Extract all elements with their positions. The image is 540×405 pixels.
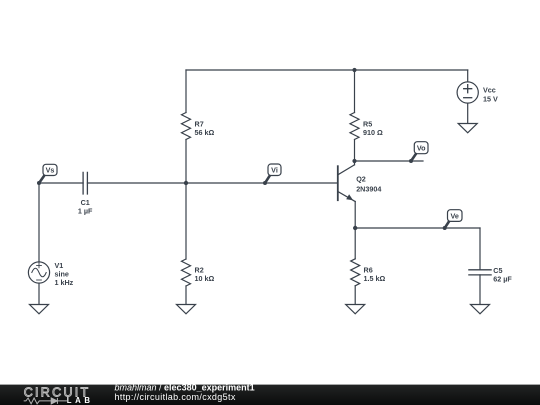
svg-text:Vs: Vs: [46, 166, 55, 175]
node flag Vi: [263, 164, 281, 185]
svg-text:Ve: Ve: [450, 212, 458, 221]
svg-text:56 kΩ: 56 kΩ: [195, 128, 215, 137]
node flag Vo: [409, 142, 428, 163]
wire R7 to input node: [185, 140, 187, 184]
node junction input: [184, 181, 188, 185]
logo CircuitLab: [24, 386, 94, 405]
svg-text:15 V: 15 V: [483, 95, 498, 104]
wire R2 branch upper: [185, 183, 187, 259]
wire top rail to Vcc: [467, 70, 469, 82]
node junction emitter: [353, 226, 357, 230]
ground (R6): [346, 305, 365, 314]
resistor R7: [182, 113, 191, 140]
resistor R5: [350, 113, 359, 140]
svg-text:62 µF: 62 µF: [493, 274, 512, 283]
resistor R6: [351, 259, 360, 286]
svg-text:Vcc: Vcc: [483, 85, 496, 94]
wire R7 branch upper: [185, 70, 187, 113]
transistor Q2: [338, 165, 355, 202]
wire V1 branch: [38, 183, 40, 262]
capacitor C1: [83, 172, 87, 194]
svg-text:10 kΩ: 10 kΩ: [195, 274, 215, 283]
svg-text:bmahlman / elec380_experiment1: bmahlman / elec380_experiment1: [115, 382, 255, 392]
resistor R2: [182, 259, 191, 286]
source V1: [28, 262, 49, 283]
wire Vcc to ground: [467, 103, 469, 123]
node junction collector: [352, 159, 356, 163]
wire C5 branch upper: [479, 228, 481, 270]
svg-text:http://circuitlab.com/cxdg5tx: http://circuitlab.com/cxdg5tx: [115, 392, 236, 402]
ground (Vcc): [458, 124, 477, 133]
node flag Vs: [37, 164, 57, 185]
wire top rail: [186, 69, 468, 71]
svg-text:910 Ω: 910 Ω: [363, 128, 383, 137]
wire emitter: [354, 202, 356, 229]
svg-text:Q2: Q2: [356, 175, 366, 184]
wire emitter to C5: [355, 227, 480, 229]
node flag Ve: [443, 210, 462, 230]
svg-text:LAB: LAB: [67, 396, 94, 405]
source Vcc: [457, 82, 478, 103]
wire Vs to C1: [39, 182, 83, 184]
capacitor C5: [469, 270, 491, 275]
wire C1 to base: [87, 182, 337, 184]
wire R5 to collector: [354, 140, 356, 165]
node junction top rail / R5: [352, 68, 356, 72]
wire R6 branch upper: [354, 228, 356, 259]
wire collector to Vo: [355, 160, 424, 162]
wire V1 to ground: [38, 283, 40, 304]
wire R2 to ground: [185, 286, 187, 305]
ground (V1): [30, 305, 49, 314]
wire R5 branch upper: [354, 70, 356, 113]
ground (C5): [471, 305, 490, 314]
svg-text:1.5 kΩ: 1.5 kΩ: [364, 274, 386, 283]
wire R6 to ground: [354, 286, 356, 305]
svg-text:1 µF: 1 µF: [78, 207, 93, 216]
wire C5 to ground: [479, 275, 481, 305]
footer bar: [0, 385, 540, 405]
svg-text:Vo: Vo: [417, 144, 426, 153]
footer credits: [115, 382, 255, 402]
svg-text:1 kHz: 1 kHz: [55, 278, 74, 287]
svg-text:Vi: Vi: [271, 166, 278, 175]
ground (R2): [177, 305, 196, 314]
svg-text:2N3904: 2N3904: [356, 184, 381, 193]
